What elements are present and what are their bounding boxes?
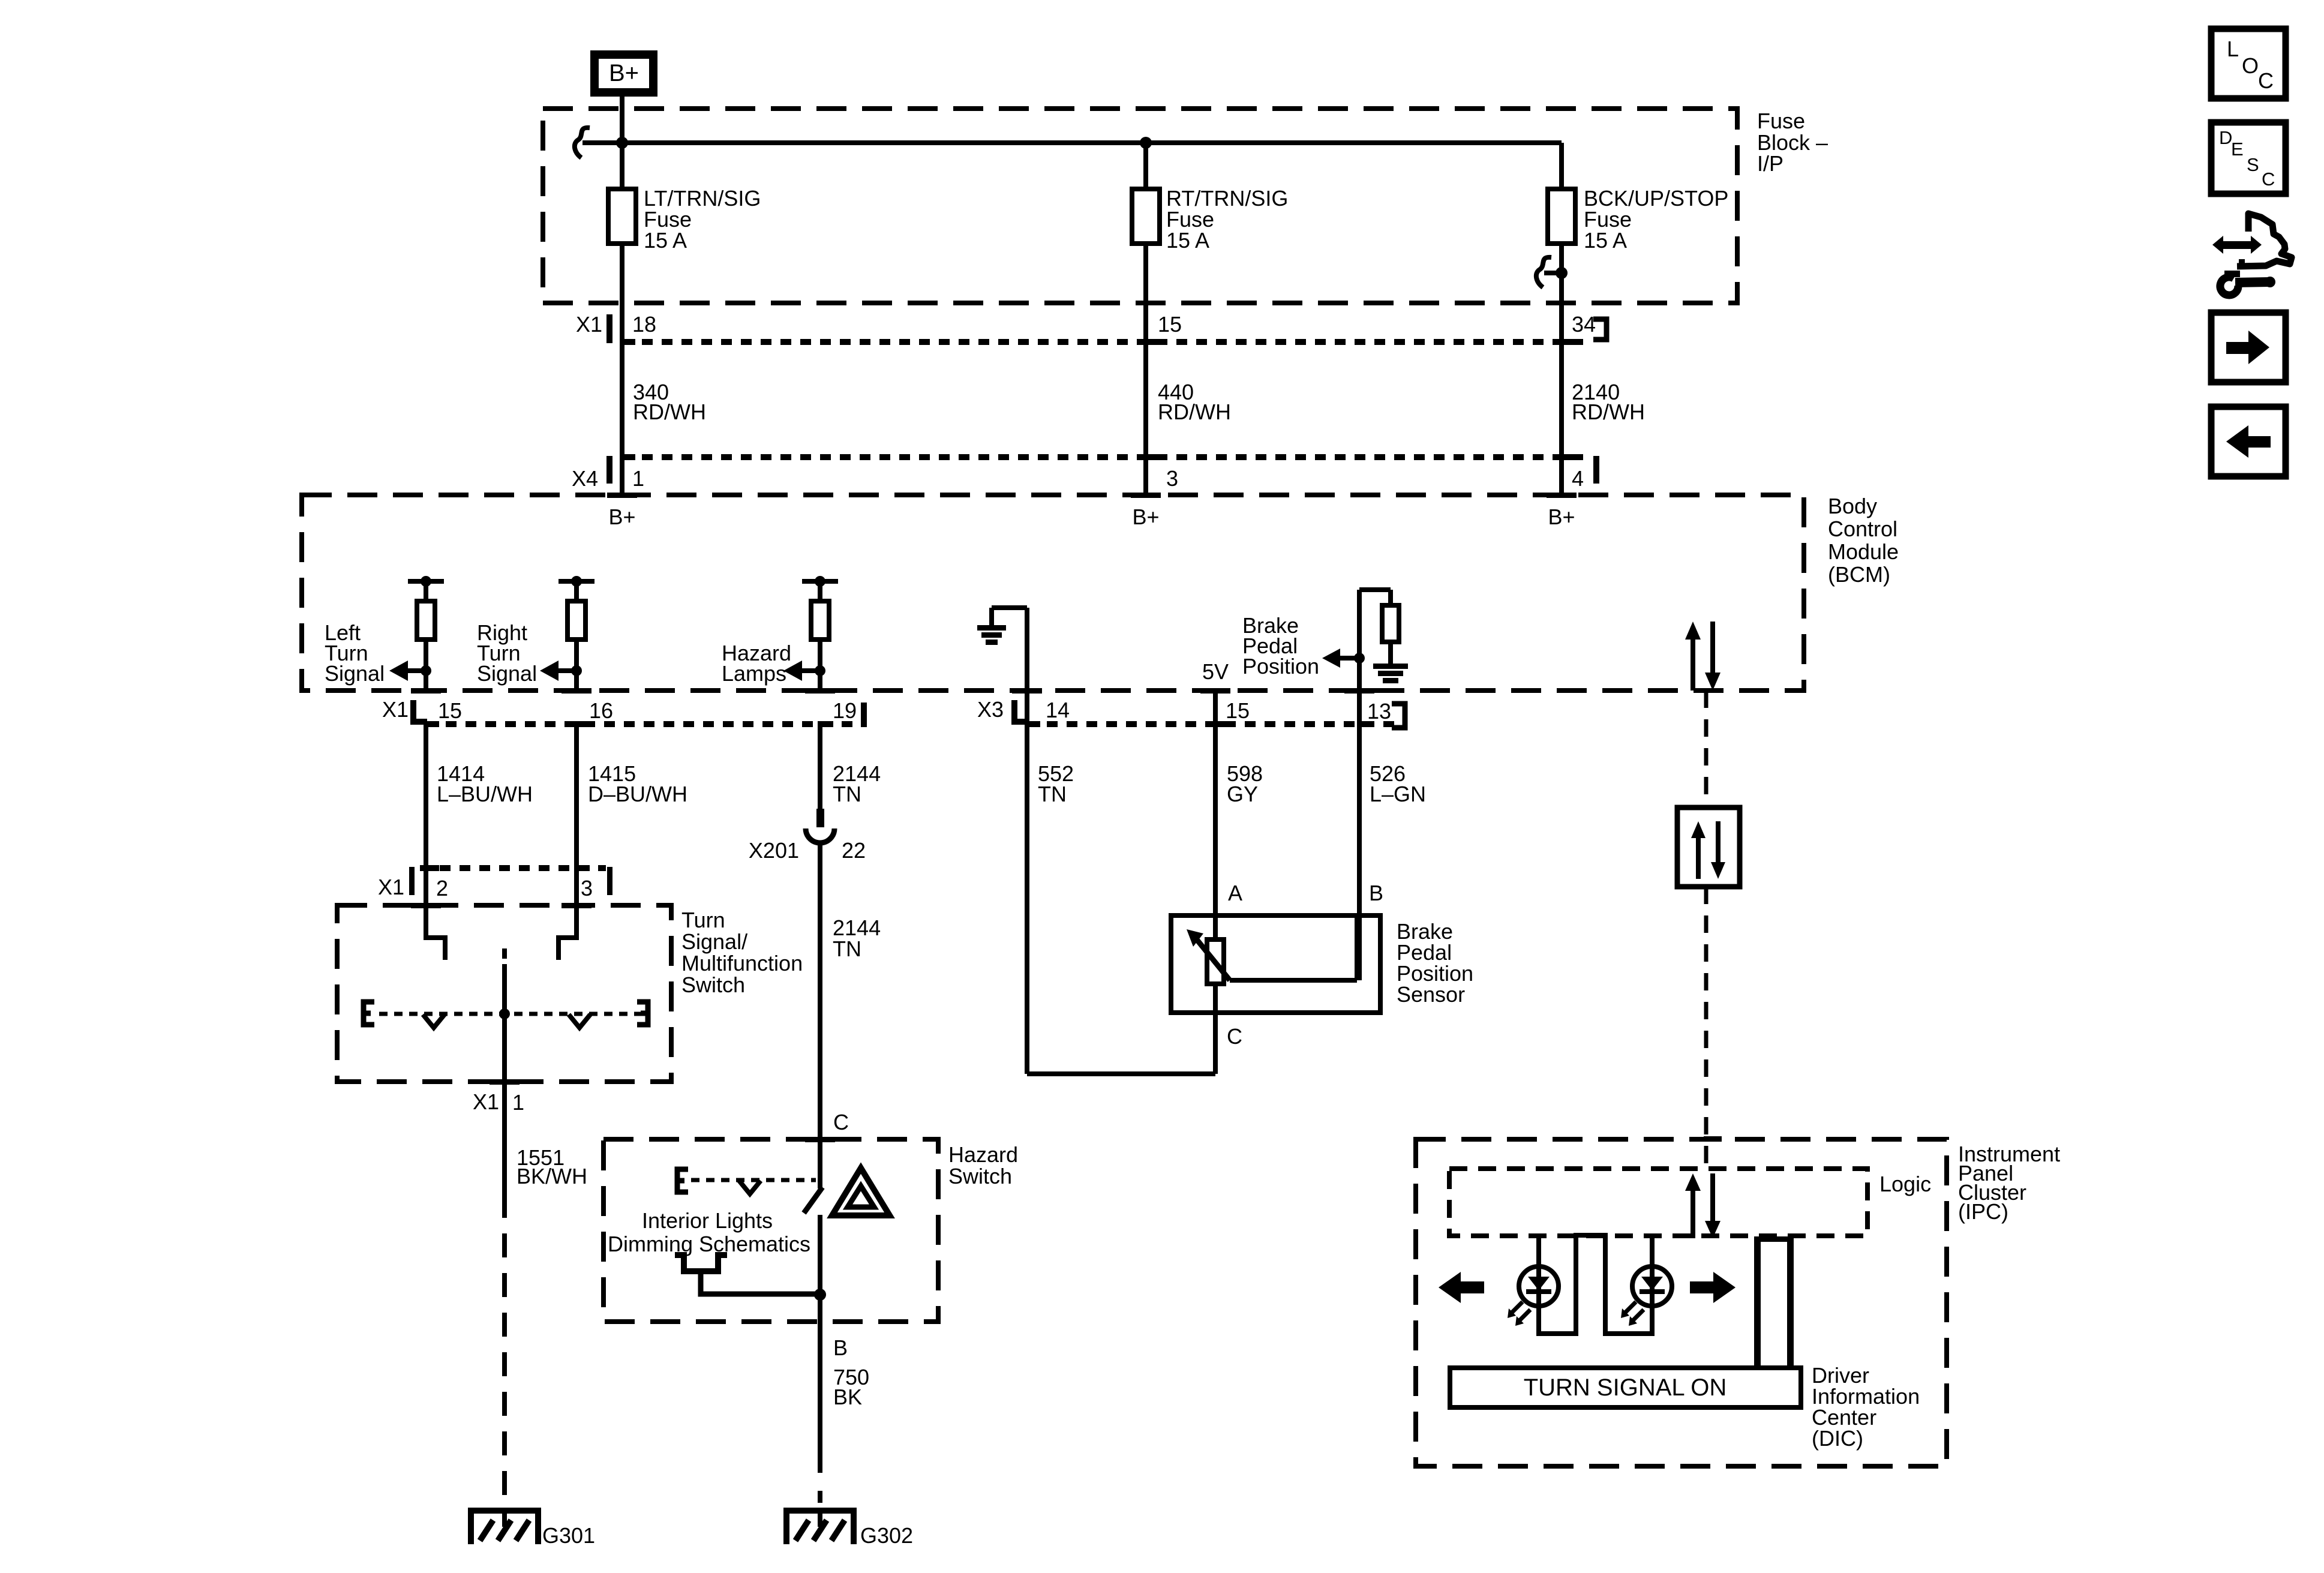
svg-text:15: 15 <box>438 698 462 723</box>
svg-text:TN: TN <box>833 936 861 961</box>
svg-text:15 A: 15 A <box>1584 228 1627 253</box>
svg-text:O: O <box>2242 53 2259 78</box>
svg-text:(DIC): (DIC) <box>1812 1426 1863 1451</box>
svg-text:RD/WH: RD/WH <box>1572 400 1645 424</box>
svg-text:1: 1 <box>512 1090 524 1115</box>
svg-text:Dimming Schematics: Dimming Schematics <box>608 1232 810 1256</box>
svg-text:A: A <box>1228 881 1242 905</box>
svg-text:C: C <box>2262 169 2275 190</box>
svg-text:5V: 5V <box>1202 659 1229 684</box>
svg-text:Hazard: Hazard <box>948 1142 1018 1167</box>
svg-text:15: 15 <box>1158 312 1182 337</box>
svg-text:22: 22 <box>842 838 866 863</box>
svg-text:B: B <box>833 1335 848 1360</box>
svg-text:C: C <box>1227 1024 1242 1049</box>
svg-text:S: S <box>2247 154 2259 175</box>
svg-text:B+: B+ <box>609 60 639 86</box>
svg-text:3: 3 <box>581 876 593 900</box>
svg-text:3: 3 <box>1166 466 1178 491</box>
svg-text:Signal/: Signal/ <box>681 929 747 954</box>
svg-text:B+: B+ <box>608 505 635 529</box>
svg-text:TURN SIGNAL ON: TURN SIGNAL ON <box>1524 1374 1727 1401</box>
svg-text:Signal: Signal <box>477 661 537 686</box>
svg-text:Body: Body <box>1828 494 1877 518</box>
svg-text:E: E <box>2231 139 2244 160</box>
svg-text:L: L <box>2227 37 2239 61</box>
svg-text:RD/WH: RD/WH <box>633 400 706 424</box>
svg-text:BK: BK <box>833 1385 862 1409</box>
svg-text:X201: X201 <box>749 838 799 863</box>
svg-text:15: 15 <box>1226 698 1250 723</box>
svg-text:Fuse: Fuse <box>1757 109 1805 133</box>
svg-text:G301: G301 <box>542 1523 595 1548</box>
svg-text:G302: G302 <box>860 1523 913 1548</box>
svg-text:GY: GY <box>1227 782 1258 806</box>
svg-text:L–BU/WH: L–BU/WH <box>437 782 533 806</box>
svg-text:Switch: Switch <box>681 972 745 997</box>
svg-text:15 A: 15 A <box>644 228 687 253</box>
svg-text:RD/WH: RD/WH <box>1158 400 1231 424</box>
svg-text:19: 19 <box>833 698 857 723</box>
svg-text:4: 4 <box>1572 466 1584 491</box>
svg-text:34: 34 <box>1572 312 1596 337</box>
svg-text:X3: X3 <box>977 697 1004 722</box>
svg-text:X1: X1 <box>378 875 404 899</box>
svg-text:Lamps: Lamps <box>722 661 786 686</box>
svg-text:Sensor: Sensor <box>1397 982 1465 1007</box>
svg-text:15 A: 15 A <box>1166 228 1209 253</box>
svg-text:TN: TN <box>833 782 861 806</box>
svg-text:(IPC): (IPC) <box>1958 1199 2008 1224</box>
svg-text:BK/WH: BK/WH <box>517 1164 587 1188</box>
svg-text:Control: Control <box>1828 517 1897 541</box>
svg-text:Turn: Turn <box>681 908 725 932</box>
svg-text:Signal: Signal <box>325 661 385 686</box>
svg-text:C: C <box>2258 68 2274 93</box>
svg-text:13: 13 <box>1367 699 1391 724</box>
svg-text:X1: X1 <box>576 312 602 337</box>
svg-text:14: 14 <box>1046 698 1070 722</box>
svg-text:C: C <box>833 1110 849 1134</box>
svg-text:Module: Module <box>1828 539 1899 564</box>
svg-text:B: B <box>1369 881 1383 905</box>
svg-text:Position: Position <box>1242 654 1319 679</box>
svg-text:B+: B+ <box>1548 505 1575 529</box>
svg-text:16: 16 <box>589 698 613 723</box>
svg-text:D–BU/WH: D–BU/WH <box>588 782 687 806</box>
svg-text:X1: X1 <box>382 697 409 722</box>
svg-text:Interior Lights: Interior Lights <box>642 1208 773 1233</box>
svg-text:18: 18 <box>632 312 656 337</box>
svg-text:X4: X4 <box>572 466 598 491</box>
svg-text:Logic: Logic <box>1879 1172 1931 1196</box>
svg-text:L–GN: L–GN <box>1370 782 1426 806</box>
svg-text:1: 1 <box>632 466 644 491</box>
svg-text:Switch: Switch <box>948 1164 1012 1188</box>
svg-text:Multifunction: Multifunction <box>681 951 803 975</box>
svg-text:(BCM): (BCM) <box>1828 562 1890 587</box>
svg-text:B+: B+ <box>1132 505 1159 529</box>
svg-text:2: 2 <box>436 876 448 900</box>
svg-text:X1: X1 <box>473 1089 499 1114</box>
svg-text:TN: TN <box>1038 782 1067 806</box>
svg-text:I/P: I/P <box>1757 151 1783 176</box>
